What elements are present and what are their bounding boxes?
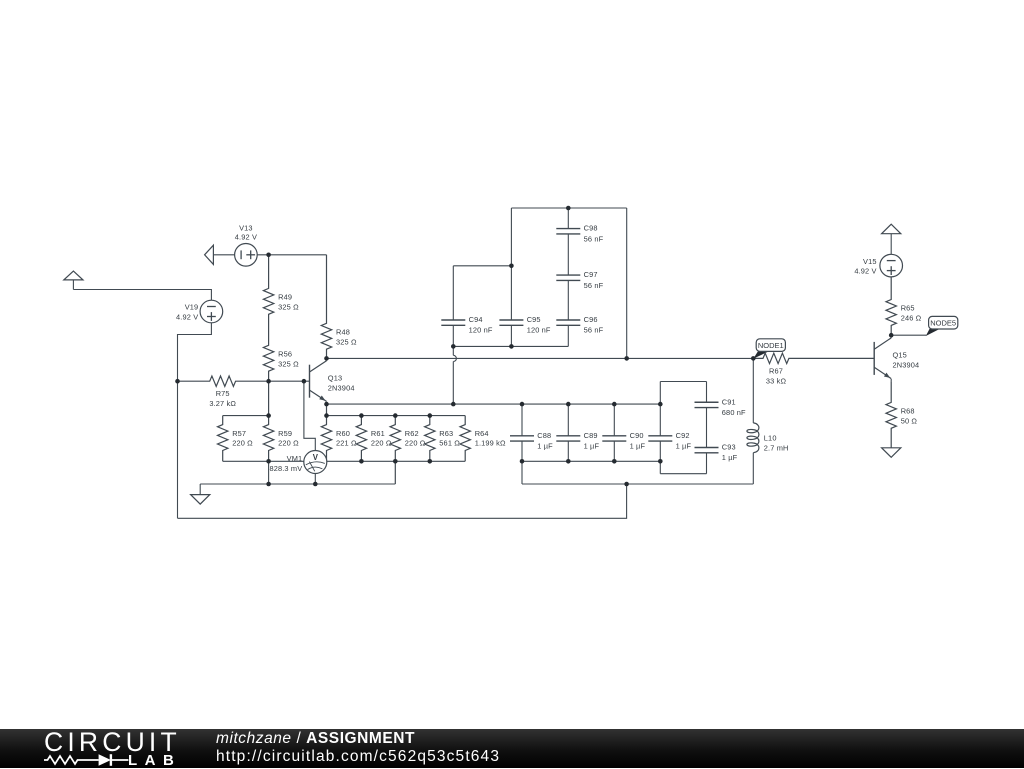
resistor R67: [753, 353, 874, 363]
label R68 value: [901, 407, 918, 426]
label R49 value: [278, 293, 299, 312]
wire bottom rail of resistor bank: [223, 460, 466, 462]
footer url text: [216, 748, 500, 766]
voltage source V13: [235, 244, 258, 267]
capacitor C96: [556, 300, 580, 346]
svg-text:221 Ω: 221 Ω: [336, 439, 357, 448]
svg-text:R49: R49: [278, 293, 292, 302]
svg-text:V15: V15: [863, 257, 877, 266]
label C89 value: [584, 431, 600, 451]
wire: [257, 254, 326, 256]
svg-text:220 Ω: 220 Ω: [371, 439, 392, 448]
svg-text:VM1: VM1: [287, 454, 303, 463]
svg-text:R68: R68: [901, 407, 915, 416]
label L10 value: [764, 434, 789, 453]
svg-text:R48: R48: [336, 328, 350, 337]
svg-text:Q13: Q13: [328, 374, 342, 383]
svg-text:1 µF: 1 µF: [630, 442, 646, 451]
CircuitLab logo: [44, 727, 181, 758]
ground: [191, 484, 210, 504]
svg-text:R61: R61: [371, 429, 385, 438]
svg-text:220 Ω: 220 Ω: [405, 439, 426, 448]
label C97 value: [584, 270, 604, 290]
label R56 value: [278, 350, 299, 369]
label C96 value: [584, 315, 604, 335]
svg-text:246 Ω: 246 Ω: [901, 314, 922, 323]
svg-text:R63: R63: [439, 429, 453, 438]
wire cap bank bottom rail: [522, 461, 660, 484]
resistor R56: [263, 330, 273, 381]
label C88 value: [537, 431, 553, 451]
svg-text:R56: R56: [278, 350, 292, 359]
svg-text:R64: R64: [475, 429, 489, 438]
transistor Q13: [310, 358, 327, 404]
svg-text:V13: V13: [239, 223, 253, 232]
resistor R57: [218, 416, 228, 462]
label Q15 value: [893, 351, 920, 370]
label R62 value: [405, 429, 426, 448]
svg-text:2N3904: 2N3904: [328, 383, 355, 392]
svg-text:V19: V19: [185, 303, 199, 312]
svg-text:56 nF: 56 nF: [584, 234, 604, 243]
label R67 value: [766, 366, 787, 385]
inductor L10: [747, 358, 759, 484]
svg-text:C91: C91: [722, 397, 736, 406]
svg-text:50 Ω: 50 Ω: [901, 416, 918, 425]
svg-text:R67: R67: [769, 366, 783, 375]
svg-text:C96: C96: [584, 315, 598, 324]
label C91 value: [722, 397, 746, 417]
resistor R61: [356, 416, 366, 462]
svg-text:C98: C98: [584, 224, 598, 233]
resistor R62: [390, 416, 400, 484]
svg-text:2N3904: 2N3904: [893, 361, 920, 370]
svg-text:1 µF: 1 µF: [722, 453, 738, 462]
capacitor C88: [510, 404, 534, 461]
svg-text:R62: R62: [405, 429, 419, 438]
svg-text:R75: R75: [216, 389, 230, 398]
label R65 value: [901, 304, 922, 323]
svg-text:680 nF: 680 nF: [722, 408, 746, 417]
label C98 value: [584, 224, 604, 244]
wire C94 C95 top rail: [453, 265, 511, 267]
label Q13 value: [328, 374, 355, 393]
svg-text:1 µF: 1 µF: [537, 442, 553, 451]
resistor R59: [263, 381, 273, 461]
svg-text:NODE5: NODE5: [930, 319, 956, 328]
capacitor C97: [556, 255, 580, 301]
svg-text:325 Ω: 325 Ω: [278, 302, 299, 311]
label V19 value: [176, 303, 198, 322]
wire: [178, 484, 627, 518]
svg-text:C97: C97: [584, 270, 598, 279]
label C90 value: [630, 431, 646, 451]
wire ground rail right: [522, 483, 753, 485]
label C94 value: [469, 315, 493, 335]
voltage source V19: [200, 300, 223, 323]
wire ground rail left: [200, 483, 395, 485]
svg-text:C93: C93: [722, 443, 736, 452]
svg-text:V: V: [313, 453, 319, 462]
wire cap mid rail: [453, 345, 568, 347]
wire: [626, 208, 628, 358]
transistor Q15: [874, 335, 891, 381]
svg-text:4.92 V: 4.92 V: [235, 233, 257, 242]
svg-text:325 Ω: 325 Ω: [336, 337, 357, 346]
resistor R75: [178, 376, 310, 386]
power flag (up arrow): [882, 224, 901, 254]
wire emitter rail: [327, 403, 661, 405]
voltage source V15: [880, 254, 903, 277]
wire: [73, 290, 211, 301]
svg-text:R60: R60: [336, 429, 350, 438]
capacitor C90: [602, 404, 626, 461]
label R60 value: [336, 429, 357, 448]
svg-text:2.7 mH: 2.7 mH: [764, 444, 789, 453]
svg-text:Q15: Q15: [893, 351, 907, 360]
svg-text:4.92 V: 4.92 V: [176, 313, 198, 322]
label R57 value: [232, 429, 253, 448]
wire collector rail: [327, 357, 754, 359]
wire: [178, 323, 212, 519]
label V13 value: [235, 223, 257, 241]
svg-text:R59: R59: [278, 429, 292, 438]
svg-text:220 Ω: 220 Ω: [232, 439, 253, 448]
resistor R64: [460, 416, 470, 462]
svg-text:1 µF: 1 µF: [584, 442, 600, 451]
svg-text:120 nF: 120 nF: [527, 326, 551, 335]
svg-text:L10: L10: [764, 434, 777, 443]
svg-text:R57: R57: [232, 429, 246, 438]
capacitor C92: [648, 382, 672, 462]
ground flag (up arrow, left input): [64, 271, 83, 289]
svg-text:NODE1: NODE1: [758, 341, 784, 350]
svg-text:R65: R65: [901, 304, 915, 313]
label R63 value: [439, 429, 460, 448]
label R59 value: [278, 429, 299, 448]
label C93 value: [722, 443, 738, 463]
wire hop over collector rail: [453, 346, 456, 404]
capacitor C91: [695, 382, 719, 426]
resistor R63: [425, 416, 435, 462]
resistor R68: [886, 381, 896, 448]
wire VM1 tap: [304, 381, 315, 450]
svg-text:1 µF: 1 µF: [676, 442, 692, 451]
svg-text:C92: C92: [676, 431, 690, 440]
label R61 value: [371, 429, 392, 448]
footer author/title text: [216, 730, 415, 748]
node NODE1 flag: [753, 339, 785, 359]
label C92 value: [676, 431, 692, 451]
resistor R48: [321, 255, 331, 359]
svg-text:56 nF: 56 nF: [584, 326, 604, 335]
ground flag (left arrow at V13): [205, 245, 235, 264]
wire: [223, 415, 269, 417]
capacitor C89: [556, 404, 580, 461]
node NODE5 flag: [926, 316, 958, 336]
label VM1 value: [269, 454, 302, 473]
svg-text:C95: C95: [527, 315, 541, 324]
label R75 value: [209, 389, 236, 408]
resistor R65: [886, 277, 896, 335]
capacitor C94: [441, 266, 465, 347]
resistor R49: [263, 255, 273, 330]
svg-text:33 kΩ: 33 kΩ: [766, 376, 787, 385]
svg-text:325 Ω: 325 Ω: [278, 359, 299, 368]
svg-text:C89: C89: [584, 431, 598, 440]
wire C91 C93 branch: [660, 382, 706, 474]
svg-text:4.92 V: 4.92 V: [854, 267, 876, 276]
label R48 value: [336, 328, 357, 347]
svg-text:3.27 kΩ: 3.27 kΩ: [209, 399, 236, 408]
wire top rail: [511, 207, 626, 209]
capacitor C98: [556, 208, 580, 255]
svg-text:56 nF: 56 nF: [584, 281, 604, 290]
label V15 value: [854, 257, 876, 276]
svg-text:C88: C88: [537, 431, 551, 440]
wire top rail of resistor bank: [327, 415, 466, 417]
svg-text:C94: C94: [469, 315, 483, 324]
svg-text:1.199 kΩ: 1.199 kΩ: [475, 439, 506, 448]
wire: [891, 334, 926, 336]
wire: [268, 461, 270, 484]
label R64 value: [475, 429, 506, 448]
label C95 value: [527, 315, 551, 335]
capacitor C95: [499, 208, 523, 346]
svg-text:120 nF: 120 nF: [469, 326, 493, 335]
svg-text:C90: C90: [630, 431, 644, 440]
capacitor C93: [695, 425, 719, 474]
svg-text:220 Ω: 220 Ω: [278, 439, 299, 448]
svg-text:561 Ω: 561 Ω: [439, 439, 460, 448]
voltmeter VM1: [304, 451, 327, 485]
svg-text:828.3 mV: 828.3 mV: [269, 464, 302, 473]
ground: [882, 448, 901, 458]
resistor R60: [321, 404, 331, 461]
